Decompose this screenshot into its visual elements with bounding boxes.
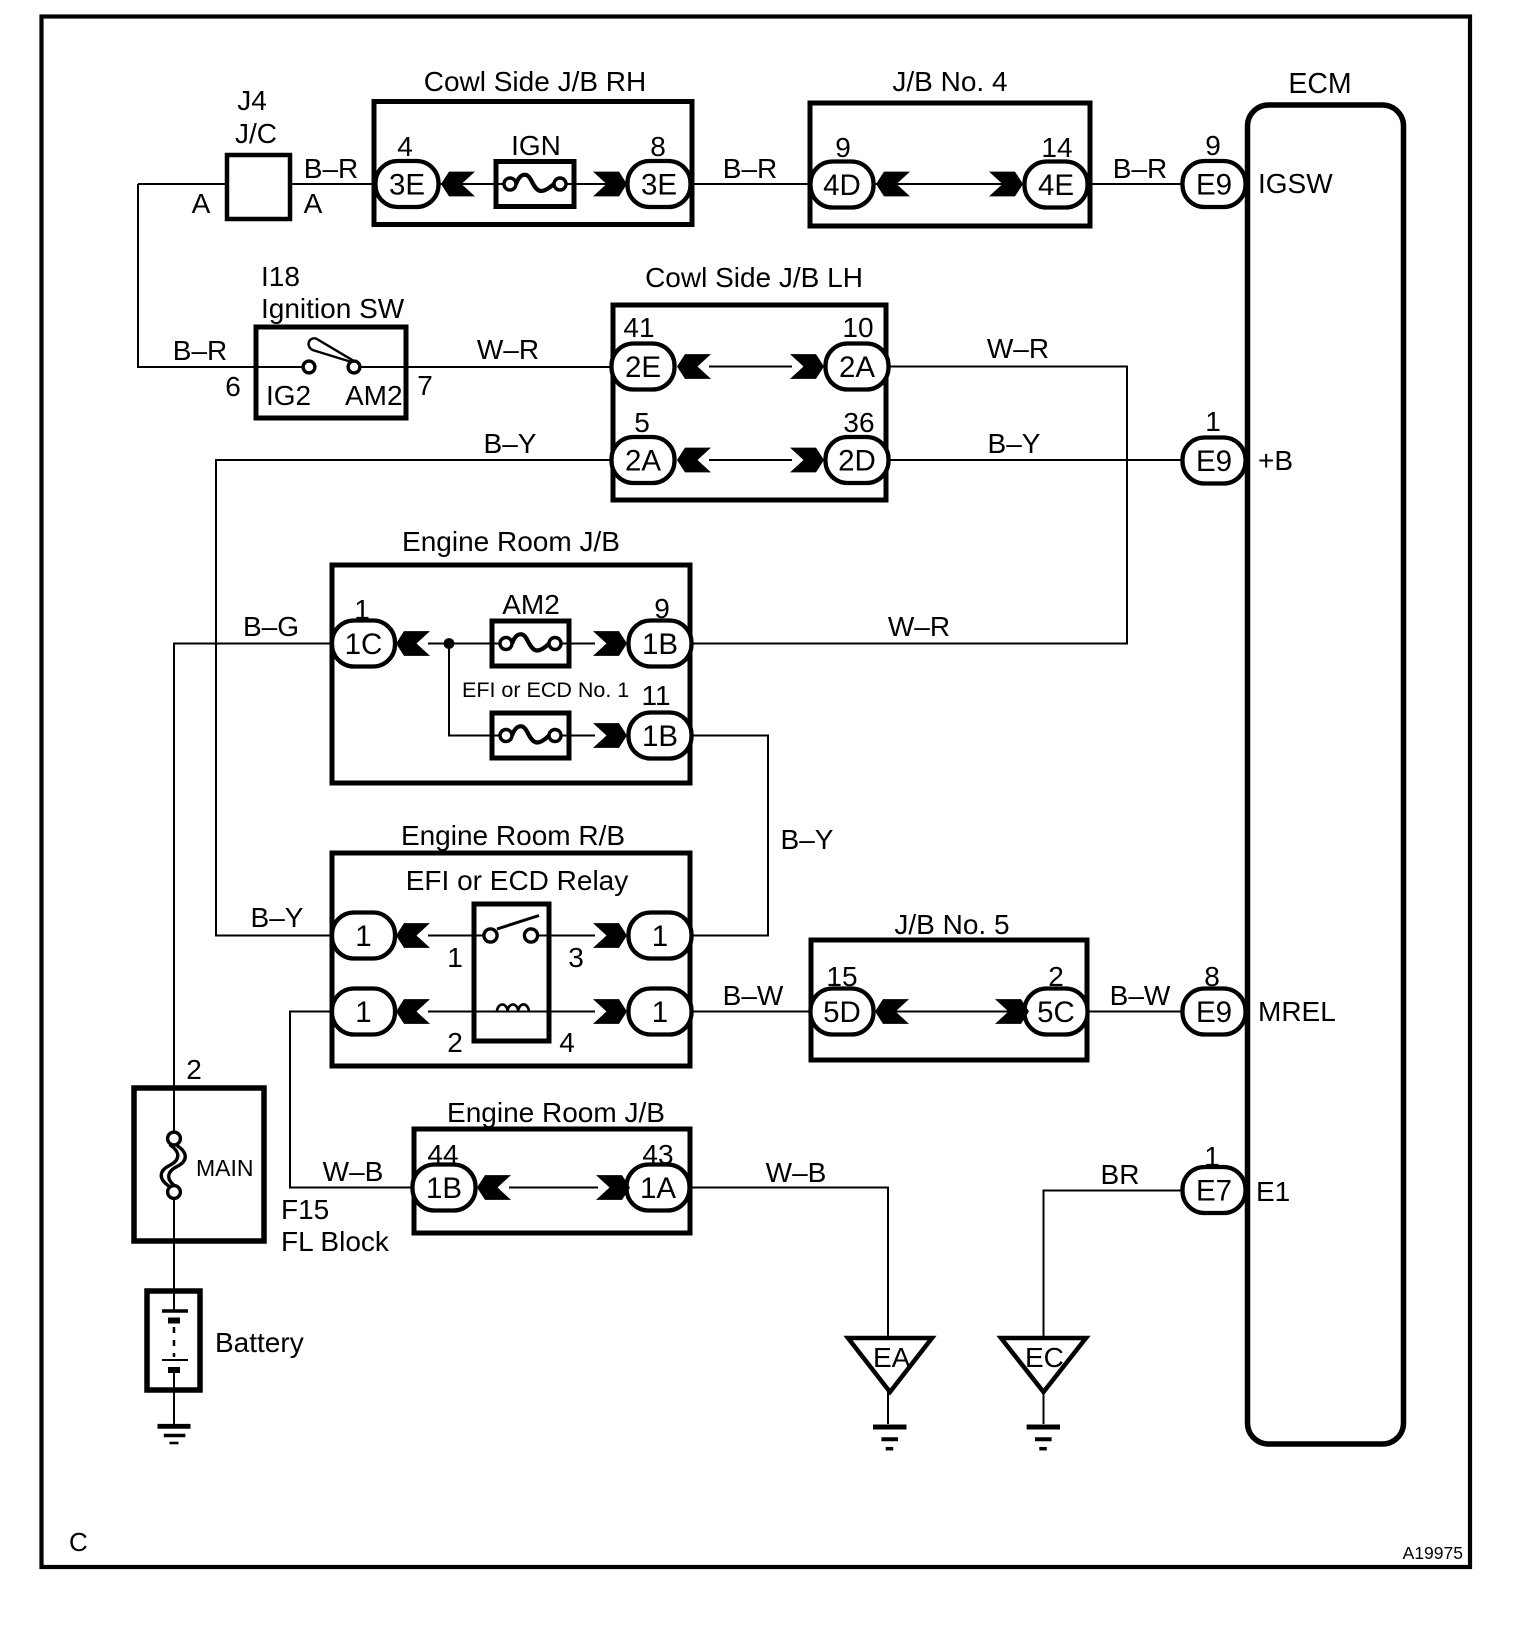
wire B-W relay pin 4 to J/B No.5 5D, 5C to ECM E9 pin 8 MREL — [692, 1011, 1185, 1013]
svg-text:B–R: B–R — [173, 335, 227, 366]
wire AM2 fuse row inside Engine Room J/B — [428, 643, 595, 645]
svg-text:44: 44 — [427, 1139, 458, 1170]
svg-text:9: 9 — [1205, 130, 1221, 161]
svg-text:1B: 1B — [642, 720, 678, 753]
J/B No. 4 box — [810, 103, 1090, 226]
svg-text:B–R: B–R — [304, 153, 358, 184]
svg-text:B–G: B–G — [243, 611, 299, 642]
svg-text:1: 1 — [354, 594, 370, 625]
wire B-Y from 1B pin11 down to relay contact pin 3 side — [692, 736, 768, 936]
svg-text:4E: 4E — [1038, 169, 1074, 202]
svg-text:EFI or ECD No. 1: EFI or ECD No. 1 — [462, 678, 629, 702]
svg-text:Cowl Side J/B RH: Cowl Side J/B RH — [424, 66, 647, 97]
svg-text:AM2: AM2 — [502, 589, 560, 620]
svg-text:IGN: IGN — [511, 130, 561, 161]
ground EC earth symbol — [1027, 1427, 1060, 1449]
connector oval E9 pin 9 IGSW — [1183, 161, 1246, 207]
svg-text:E1: E1 — [1256, 1176, 1290, 1207]
MAIN fusible link F15 FL Block box — [134, 1088, 264, 1241]
svg-text:1: 1 — [355, 996, 371, 1029]
svg-text:1: 1 — [355, 920, 371, 953]
connector oval 1B pin 9 — [629, 621, 692, 667]
ground EA triangle — [848, 1338, 932, 1392]
relay connector oval 1 lower left — [332, 989, 395, 1035]
svg-text:W–R: W–R — [987, 333, 1049, 364]
wire relay coil row — [428, 1011, 595, 1013]
connector oval 3E pin 4 — [376, 161, 439, 207]
svg-text:1: 1 — [1204, 1141, 1220, 1172]
svg-text:14: 14 — [1041, 132, 1072, 163]
arrow into 1A pin 43 — [596, 1175, 630, 1200]
relay connector oval 1 upper right — [629, 913, 692, 959]
connector oval 2E pin 41 — [612, 344, 675, 390]
svg-text:E7: E7 — [1196, 1175, 1232, 1208]
svg-text:J/B No. 5: J/B No. 5 — [894, 909, 1009, 940]
svg-text:B–Y: B–Y — [484, 428, 537, 459]
relay coil — [497, 1004, 529, 1011]
svg-text:B–Y: B–Y — [251, 902, 304, 933]
Cowl Side J/B RH box — [374, 102, 692, 225]
arrow into 1B pin 44 — [477, 1175, 511, 1200]
svg-text:1B: 1B — [426, 1172, 462, 1205]
svg-text:MREL: MREL — [1258, 996, 1336, 1027]
Engine Room J/B box — [332, 565, 690, 783]
svg-text:8: 8 — [1204, 961, 1220, 992]
svg-text:2A: 2A — [839, 351, 875, 384]
svg-text:A: A — [304, 188, 323, 219]
connector oval 2D pin 36 — [826, 437, 889, 483]
svg-text:1C: 1C — [345, 628, 383, 661]
wire EC triangle to earth symbol — [1043, 1392, 1045, 1424]
svg-text:Engine Room R/B: Engine Room R/B — [401, 820, 625, 851]
arrow into relay oval lower left — [396, 999, 430, 1024]
arrow out of relay coil — [593, 999, 627, 1024]
svg-text:4D: 4D — [823, 169, 861, 202]
connector oval E9 pin 1 +B — [1183, 438, 1246, 484]
arrow out of EFI fuse into 1B pin 11 — [593, 723, 627, 748]
svg-text:2D: 2D — [838, 445, 876, 478]
arrow out of relay contact — [593, 923, 627, 948]
arrow into 2A pin 5 — [677, 448, 711, 473]
svg-text:3E: 3E — [389, 169, 425, 202]
connector oval 2A pin 5 — [612, 437, 675, 483]
wire EA triangle to earth symbol — [887, 1392, 889, 1424]
svg-text:4: 4 — [397, 131, 413, 162]
battery plates — [162, 1311, 188, 1370]
svg-text:36: 36 — [843, 407, 874, 438]
wire battery negative plate to earth symbol — [173, 1373, 175, 1424]
svg-text:AM2: AM2 — [345, 380, 403, 411]
fuse IGN — [496, 162, 574, 207]
ignition switch I18 contacts and lever — [303, 338, 360, 373]
svg-text:W–R: W–R — [477, 334, 539, 365]
connector oval 1A pin 43 — [627, 1165, 690, 1211]
wire B-R from J4 J/C pin A to left riser — [138, 183, 229, 185]
wire BR from ground EC up to ECM E7 pin 1 E1 — [1044, 1191, 1186, 1339]
svg-text:11: 11 — [641, 680, 670, 711]
wire MAIN fusible link to battery positive plate — [173, 1199, 175, 1312]
svg-text:E9: E9 — [1196, 445, 1232, 478]
svg-text:B–R: B–R — [723, 153, 777, 184]
wire inside bottom Engine Room J/B row 1B-1A — [509, 1187, 598, 1189]
arrow into 3E pin 4 — [441, 172, 475, 197]
svg-text:2: 2 — [1048, 961, 1064, 992]
svg-text:Battery: Battery — [215, 1327, 304, 1358]
svg-text:9: 9 — [654, 593, 670, 624]
svg-text:A19975: A19975 — [1403, 1543, 1463, 1563]
wire B-Y from 2D pin36 to ECM E9 pin 1 +B — [888, 459, 1185, 461]
svg-text:F15: F15 — [281, 1194, 329, 1225]
wire relay contact row — [428, 935, 595, 937]
svg-text:W–B: W–B — [323, 1156, 384, 1187]
Cowl Side J/B LH box — [613, 305, 886, 500]
connector oval 5C pin 2 — [1025, 989, 1088, 1035]
arrow into 1C — [396, 631, 430, 656]
svg-text:J/B No. 4: J/B No. 4 — [892, 66, 1007, 97]
wire inside Cowl Side J/B LH row 2A-2D — [709, 459, 792, 461]
wire W-R ignition SW pin 7 to Cowl Side J/B LH 2E — [360, 366, 614, 368]
relay connector oval 1 lower right — [629, 989, 692, 1035]
svg-text:4: 4 — [559, 1027, 575, 1058]
svg-text:Ignition SW: Ignition SW — [261, 293, 405, 324]
Engine Room R/B box — [332, 853, 690, 1066]
arrow into 2A pin 10 — [790, 354, 824, 379]
arrow into 4D — [876, 172, 910, 197]
svg-text:Engine Room J/B: Engine Room J/B — [402, 526, 620, 557]
Engine Room J/B lower box — [414, 1129, 690, 1233]
svg-text:B–Y: B–Y — [781, 824, 834, 855]
svg-text:41: 41 — [623, 312, 654, 343]
svg-text:W–R: W–R — [888, 611, 950, 642]
svg-text:W–B: W–B — [766, 1157, 827, 1188]
svg-text:3E: 3E — [641, 169, 677, 202]
svg-text:10: 10 — [842, 312, 873, 343]
ignition switch I18 box — [256, 327, 406, 418]
svg-text:I18: I18 — [261, 261, 300, 292]
svg-text:Engine Room J/B: Engine Room J/B — [447, 1097, 665, 1128]
wire B-Y from 2A pin5 left and down to EFI relay pin 1 — [216, 460, 612, 936]
battery earth ground symbol — [158, 1426, 191, 1443]
battery box — [147, 1291, 200, 1390]
svg-text:EA: EA — [873, 1342, 911, 1373]
svg-text:J4: J4 — [237, 85, 267, 116]
connector oval 1B pin 11 — [629, 713, 692, 759]
svg-text:8: 8 — [650, 131, 666, 162]
svg-text:15: 15 — [826, 961, 857, 992]
connector oval E7 pin 1 E1 — [1183, 1167, 1246, 1213]
connector oval 1B pin 44 — [413, 1165, 476, 1211]
svg-text:IGSW: IGSW — [1258, 168, 1333, 199]
svg-text:1: 1 — [652, 920, 668, 953]
connector oval 4D pin 9 — [811, 162, 874, 208]
fuse AM2 — [492, 621, 569, 666]
svg-text:BR: BR — [1101, 1159, 1140, 1190]
svg-text:2: 2 — [186, 1054, 202, 1085]
relay connector oval 1 upper left — [332, 913, 395, 959]
svg-text:1: 1 — [652, 996, 668, 1029]
connector oval 5D pin 15 — [811, 989, 874, 1035]
wire B-R row1: J4 to Cowl Side J/B RH to J/B No.4 to ECM E9 pin 9 — [288, 183, 1185, 185]
ground EC triangle — [1001, 1338, 1086, 1392]
wire W-B from 1A pin43 right and down to ground EA — [689, 1188, 888, 1339]
wire W-B from relay pin 2 down to Engine Room J/B 1B pin 44 — [290, 1012, 415, 1188]
svg-text:B–R: B–R — [1113, 153, 1167, 184]
wire B-R riser down to ignition switch pin 6 — [138, 184, 303, 367]
svg-text:B–W: B–W — [1110, 980, 1171, 1011]
arrow out of AM2 fuse into 1B pin 9 — [593, 631, 627, 656]
svg-text:A: A — [192, 188, 211, 219]
svg-text:5: 5 — [634, 407, 650, 438]
svg-text:EFI or ECD Relay: EFI or ECD Relay — [406, 865, 629, 896]
connector oval 4E pin 14 — [1025, 162, 1088, 208]
svg-text:B–Y: B–Y — [988, 428, 1041, 459]
svg-text:ECM: ECM — [1288, 68, 1351, 100]
svg-text:43: 43 — [642, 1139, 673, 1170]
svg-text:C: C — [69, 1527, 88, 1557]
wire B-G from Engine Room J/B 1C to MAIN fusible link — [174, 644, 332, 1133]
ground EA earth symbol — [873, 1427, 907, 1449]
wire inside J/B No.5 row 5D-5C — [907, 1011, 997, 1013]
connector oval 1C pin 1 — [332, 621, 395, 667]
svg-text:MAIN: MAIN — [196, 1155, 254, 1181]
arrow into 5D — [875, 999, 909, 1024]
arrow into 4E — [989, 172, 1023, 197]
arrow into 2D — [790, 448, 824, 473]
arrow into 2E — [677, 354, 711, 379]
svg-text:1: 1 — [1205, 406, 1221, 437]
relay EFI or ECD inner box — [474, 904, 549, 1041]
svg-text:5C: 5C — [1037, 996, 1075, 1029]
wire inside Cowl Side J/B LH row 2E-2A — [709, 366, 792, 368]
svg-text:9: 9 — [835, 132, 851, 163]
svg-text:7: 7 — [417, 370, 433, 401]
svg-text:E9: E9 — [1196, 169, 1232, 202]
svg-text:1: 1 — [447, 942, 463, 973]
svg-text:3: 3 — [568, 942, 584, 973]
svg-text:2E: 2E — [625, 351, 661, 384]
svg-text:EC: EC — [1025, 1342, 1064, 1373]
svg-text:FL Block: FL Block — [281, 1226, 390, 1257]
wire W-R from 2A pin10 down to Engine Room J/B 1B pin 9 — [692, 367, 1127, 644]
svg-text:5D: 5D — [823, 996, 861, 1029]
arrow out of IGN fuse — [593, 172, 627, 197]
J/B No. 5 box — [811, 940, 1087, 1060]
connector oval 2A pin 10 — [826, 344, 889, 390]
arrow into relay oval upper left — [396, 923, 430, 948]
svg-text:1B: 1B — [642, 628, 678, 661]
svg-text:B–W: B–W — [723, 980, 784, 1011]
svg-text:6: 6 — [225, 371, 241, 402]
fuse EFI or ECD No. 1 — [492, 713, 569, 758]
connector oval 3E pin 8 — [628, 161, 691, 207]
wire from junction down through EFI or ECD No.1 fuse — [449, 644, 595, 736]
svg-text:1A: 1A — [640, 1172, 676, 1205]
svg-text:+B: +B — [1258, 445, 1293, 476]
svg-text:2A: 2A — [625, 445, 661, 478]
svg-text:J/C: J/C — [235, 118, 277, 149]
junction node at AM2 fuse input — [444, 638, 455, 649]
svg-text:E9: E9 — [1196, 996, 1232, 1029]
arrow into 5C — [995, 999, 1029, 1024]
svg-text:IG2: IG2 — [266, 380, 311, 411]
junction connector J4 J/C box — [227, 155, 290, 219]
ECM U1 box — [1248, 105, 1404, 1444]
svg-text:Cowl Side J/B LH: Cowl Side J/B LH — [645, 262, 863, 293]
fusible link MAIN symbol — [161, 1132, 185, 1198]
connector oval E9 pin 8 MREL — [1183, 989, 1246, 1035]
svg-text:2: 2 — [447, 1027, 463, 1058]
